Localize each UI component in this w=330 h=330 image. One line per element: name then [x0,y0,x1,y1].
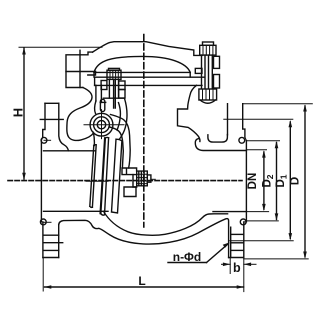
inlet bore bottom line [44,210,109,212]
dimension H line [23,48,25,179]
right flange face with steps [243,104,247,258]
rocker inner arc [117,103,120,130]
left flange hole circle lower [40,219,46,225]
disc seat ring [90,145,96,208]
left bolt cap [109,68,120,70]
right bolt top hex nut [200,45,216,55]
right bolt bottom rounded end [200,100,216,103]
left flange bolt hatch ladder [43,234,59,236]
svg-text:L: L [138,274,145,288]
disc hub upper step [122,168,137,175]
chamber left columns [95,85,97,101]
bonnet dome [94,56,190,72]
right flange inner edge upper [227,104,229,135]
right flange hole circle upper [239,137,245,143]
dimension H top extension line [19,46,102,48]
left flange lower inner edge [58,225,60,258]
L left extension [42,258,44,291]
D1 extension lines [224,118,293,120]
dimension b [229,258,231,274]
svg-text:D: D [290,177,302,185]
disc centerline tick [86,180,108,182]
centerline vertical [143,35,145,228]
svg-text:b: b [233,261,241,275]
lug right notch [88,72,96,76]
body right wall [178,85,200,141]
left flange face with steps [41,103,45,257]
right flange bolt hatch ladder [231,233,244,235]
dimension H arrows [22,47,26,54]
disc stem tip [147,175,151,182]
hinge bracket left wiggle [95,101,96,114]
svg-text:H: H [11,108,26,117]
left flange bottom edge [43,257,59,259]
left flange hole circle upper [41,137,47,143]
dimension D1 line [289,122,291,239]
centerline horizontal [8,180,242,182]
left flange top edge [45,102,59,104]
stem hatch lines [137,174,148,183]
hinge bracket collar lines [103,97,124,99]
right bolt cap [203,42,214,45]
lug divider [66,71,96,73]
rocker outer C-curve from bolt [120,98,128,139]
right bolt right tabs [214,56,220,68]
disc hub block [133,175,137,187]
disc plate [101,138,106,213]
inner belly curve from seat platform [104,211,228,235]
DN extension lines [246,149,266,151]
bonnet top profile [93,42,203,56]
hinge pin outer circle [90,113,113,136]
outlet wall inner detail [208,135,228,143]
body flange joint top [95,76,204,78]
left flange inner edge upper with fillet [59,103,69,151]
disc hub lower step [124,187,136,197]
swing arm inner edge [109,127,123,168]
left bolt left block [101,81,107,90]
D extension lines [243,103,313,105]
body flange joint bottom [95,84,202,86]
right bolt left tab [195,68,202,73]
left bolt right tabs [119,81,125,90]
D2 extension lines [246,140,279,142]
svg-text:DN: DN [247,173,259,190]
disc stem [137,171,148,186]
left bolt hex nut [107,70,121,79]
body lower wall from lug with dip (outer belly) [59,219,229,258]
right flange bottom edge [229,257,244,259]
inlet S-pocket wall [67,88,95,146]
bonnet left lug box [66,52,93,87]
inlet bore top line [44,150,96,152]
hinge crosshair [84,124,124,126]
disc holder plate [112,139,122,213]
outlet bore bottom line [213,211,246,213]
right bolt shaft [202,55,213,88]
right flange hole circle lower [240,219,246,225]
dimension D line [304,106,306,257]
swing arm outer edge [111,115,131,169]
hinge pin middle circle [94,117,110,133]
left flange raised-face steps [41,137,43,222]
dimension DN line [263,152,265,209]
left bolt shaft [109,79,118,98]
outlet bore top wall [195,139,246,151]
bonnet flange plate [94,72,190,77]
L right extension [243,258,245,292]
dimension D2 line [276,143,278,220]
dimension L line [45,286,244,288]
right bolt bottom hex nut [199,89,217,100]
hinge pin inner circle [97,121,105,129]
left flange bolt line upper [40,118,63,120]
lug vertical [79,50,81,87]
